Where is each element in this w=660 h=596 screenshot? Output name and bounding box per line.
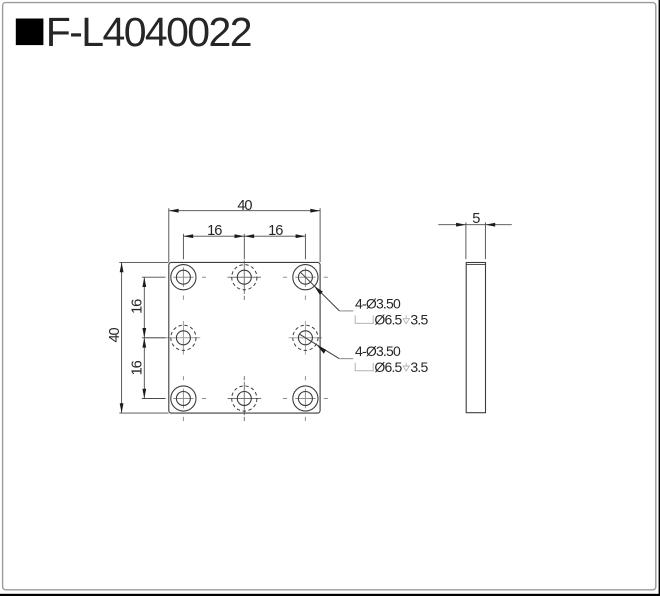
dimension 16 top arrowheads bbox=[183, 234, 193, 238]
dimension 5 side view: dimension line with tails bbox=[438, 224, 512, 226]
svg-text:4-Ø3.50: 4-Ø3.50 bbox=[355, 343, 401, 359]
annotation 1 depth symbol bbox=[403, 315, 409, 323]
hole BR counterbore outer circle bbox=[293, 386, 318, 411]
hole TL counterbore outer circle bbox=[171, 265, 196, 290]
hole TM hidden counterbore dashed circle bbox=[232, 265, 257, 290]
hole ML drill inner circle bbox=[176, 331, 190, 345]
dimension 16 top: dimension line bbox=[183, 235, 305, 237]
hole TR counterbore outer circle bbox=[293, 265, 318, 290]
leader 1 line through hole TR bbox=[300, 272, 339, 311]
side view outline bbox=[466, 263, 485, 413]
leader 2 line through hole MR bbox=[299, 334, 339, 359]
svg-text:4-Ø3.50: 4-Ø3.50 bbox=[355, 296, 401, 312]
dimension 40 top: dimension line bbox=[169, 210, 320, 212]
annotation 1 counterbore symbol bbox=[355, 315, 373, 323]
leader 2 landing segment bbox=[339, 358, 353, 360]
hole BL counterbore outer circle bbox=[171, 386, 196, 411]
hole BR drill inner circle bbox=[298, 392, 312, 406]
hole MR center mark bbox=[289, 321, 322, 355]
dimension 40 left: extension lines bbox=[119, 262, 168, 413]
annotation 2 depth symbol bbox=[403, 363, 409, 371]
hole TR center mark bbox=[283, 267, 328, 299]
hole BM center mark bbox=[228, 376, 262, 421]
hole ML center mark bbox=[144, 321, 200, 355]
svg-text:16: 16 bbox=[207, 223, 222, 239]
dimension 40 top: extension lines bbox=[169, 208, 320, 262]
dimension 5 arrowheads bbox=[456, 223, 466, 227]
dimension 16 left: extension lines bbox=[142, 277, 166, 398]
svg-text:Ø6.5: Ø6.5 bbox=[374, 312, 402, 328]
side view counterbore step line bbox=[466, 264, 485, 266]
hole MR hidden counterbore dashed circle bbox=[293, 325, 318, 350]
hole BM hidden counterbore dashed circle bbox=[232, 386, 257, 411]
front view plate outline bbox=[169, 262, 320, 413]
svg-text:F-L4040022: F-L4040022 bbox=[46, 9, 251, 55]
svg-text:40: 40 bbox=[237, 198, 252, 214]
hole TL drill inner circle bbox=[176, 270, 190, 284]
dimension 40 left arrowheads bbox=[120, 262, 124, 272]
svg-text:Ø6.5: Ø6.5 bbox=[374, 359, 402, 375]
svg-text:16: 16 bbox=[268, 223, 283, 239]
hole TM center mark bbox=[228, 260, 262, 300]
hole MR drill inner circle bbox=[298, 331, 312, 345]
svg-text:40: 40 bbox=[107, 328, 123, 343]
hole BL center mark bbox=[173, 376, 206, 421]
black border line right bbox=[659, 0, 660, 596]
black border line bottom bbox=[0, 594, 660, 596]
title block square bullet bbox=[16, 19, 44, 46]
leader 1 landing segment bbox=[339, 310, 353, 312]
svg-text:3.5: 3.5 bbox=[410, 359, 428, 375]
leader 1 arrowhead at hole TR bbox=[314, 286, 323, 295]
dimension 40 top arrowheads bbox=[169, 209, 179, 213]
hole TL center mark bbox=[173, 267, 206, 299]
hole BL drill inner circle bbox=[176, 392, 190, 406]
svg-text:16: 16 bbox=[130, 360, 146, 375]
leader 2 arrowhead at hole MR bbox=[317, 346, 326, 354]
hole BM drill inner circle bbox=[237, 392, 251, 406]
dimension 16 left: dimension line bbox=[143, 277, 145, 398]
hole TM drill inner circle bbox=[237, 270, 251, 284]
svg-text:3.5: 3.5 bbox=[410, 312, 428, 328]
svg-text:16: 16 bbox=[130, 299, 146, 314]
dimension 16 top: extension lines bbox=[183, 234, 305, 260]
hole BR center mark bbox=[283, 376, 328, 421]
hole ML hidden counterbore dashed circle bbox=[171, 325, 196, 350]
annotation 2 counterbore symbol bbox=[355, 363, 373, 371]
dimension 5 side view: extension lines bbox=[466, 222, 486, 259]
hole TR drill inner circle bbox=[298, 270, 312, 284]
dimension 16 left arrowheads bbox=[142, 277, 146, 287]
svg-text:5: 5 bbox=[472, 211, 480, 227]
dimension 40 left: dimension line bbox=[121, 262, 123, 413]
